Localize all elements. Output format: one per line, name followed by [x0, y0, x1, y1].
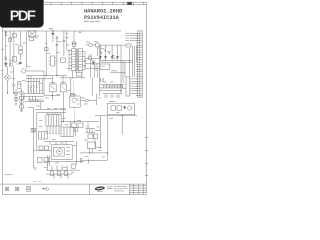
- wire: [33, 79, 35, 94]
- resistor R806: [20, 96, 24, 99]
- wire: [62, 76, 64, 84]
- wire: [3, 194, 147, 196]
- label: [102, 61, 106, 64]
- wire: [96, 47, 98, 56]
- capacitor C808: [63, 40, 66, 41]
- wire: [99, 45, 101, 61]
- label: [109, 101, 115, 102]
- label: [5, 174, 13, 175]
- label: [22, 79, 26, 82]
- resistor array RA801: [104, 85, 123, 88]
- resistor R861: [44, 158, 49, 163]
- node pins: [66, 148, 70, 155]
- node logo SAMSUNG: [94, 186, 105, 191]
- wire: [43, 71, 45, 96]
- transformer left pin bus: [68, 50, 70, 71]
- resistor bank hatch: [28, 85, 38, 92]
- wire: [100, 84, 125, 86]
- relay RL802: [70, 96, 80, 107]
- photocoupler PC802: [60, 84, 66, 92]
- label: [39, 119, 43, 122]
- junction: [74, 121, 75, 122]
- junction: [13, 92, 14, 93]
- label: [36, 105, 40, 108]
- connector CN852: [15, 187, 18, 191]
- wire: [105, 45, 107, 61]
- resistor R805: [15, 97, 18, 100]
- wire: [30, 96, 36, 100]
- wire: [66, 31, 68, 50]
- wire: [76, 141, 78, 165]
- wire: [46, 169, 80, 171]
- label: [100, 78, 101, 82]
- label: [17, 63, 21, 66]
- wire: [7, 81, 9, 86]
- transistor Q840: [128, 106, 132, 110]
- label: [23, 42, 27, 45]
- label: [111, 70, 117, 71]
- wire: [88, 57, 99, 59]
- transistor Q802: [20, 100, 24, 104]
- wire: [70, 78, 72, 96]
- label: [101, 47, 105, 50]
- label: [39, 125, 43, 128]
- junction: [107, 152, 108, 153]
- wire: [130, 37, 138, 39]
- wire: [44, 140, 74, 142]
- component block A: [39, 132, 48, 140]
- fuse F801: [5, 32, 7, 36]
- node logo sub: [97, 190, 103, 193]
- diode D822: [111, 56, 113, 58]
- label: [126, 37, 130, 40]
- diode D802: [52, 33, 55, 35]
- wire: [100, 44, 127, 46]
- wire: [33, 107, 35, 168]
- wire: [124, 62, 126, 77]
- wire: [24, 95, 44, 97]
- wire: [3, 4, 147, 6]
- wire: [69, 122, 71, 130]
- label: [73, 144, 77, 147]
- wire: [88, 62, 99, 64]
- wire: [23, 94, 25, 100]
- node arrow: [61, 86, 65, 90]
- capacitor C832: [117, 95, 119, 98]
- label: [109, 117, 113, 120]
- wire dashed: [73, 78, 75, 96]
- wire: [87, 160, 89, 163]
- resistor R872: [64, 171, 67, 176]
- resistor R852: [75, 128, 78, 132]
- wire: [21, 89, 23, 111]
- ic U803 box: [100, 64, 110, 70]
- varistor VZ801: [9, 39, 12, 42]
- wire: [92, 78, 94, 96]
- connector inner column: [138, 31, 140, 97]
- label: [101, 65, 105, 68]
- component block B: [61, 127, 73, 137]
- label: [85, 155, 89, 158]
- diode D811: [89, 57, 92, 60]
- junction: [89, 152, 90, 153]
- resistor R809: [76, 72, 82, 76]
- label: [44, 166, 48, 169]
- header group: [84, 7, 123, 22]
- junction: [52, 30, 53, 31]
- wire: [36, 113, 38, 151]
- jumper JP851: [43, 188, 49, 191]
- node dot: [43, 188, 45, 190]
- connector CN851: [5, 187, 8, 191]
- schematic body: [1, 28, 142, 191]
- label: [50, 82, 55, 83]
- wire: [26, 31, 28, 69]
- transistor box Q850: [52, 145, 73, 160]
- wire: [35, 109, 66, 111]
- label: [94, 40, 98, 43]
- connector CN801: [138, 31, 143, 97]
- node arrow: [51, 86, 55, 90]
- label: [65, 123, 69, 126]
- wire: [90, 60, 92, 78]
- label: [62, 117, 66, 120]
- junction: [100, 147, 101, 148]
- connector CN853: [27, 187, 31, 192]
- thermistor TH801: [9, 63, 12, 66]
- title block group: [90, 184, 147, 195]
- label: [10, 71, 14, 74]
- inductor L801: [89, 43, 93, 46]
- junction: [52, 95, 53, 96]
- label: [126, 34, 130, 37]
- wire: [40, 101, 42, 109]
- photocoupler circle: [21, 69, 25, 73]
- label: [49, 28, 53, 29]
- wire: [110, 72, 126, 74]
- junction: [105, 50, 106, 51]
- wire: [100, 87, 125, 89]
- resistor R870: [50, 171, 53, 176]
- wire: [30, 76, 32, 94]
- relay coil: [72, 98, 76, 102]
- line filter LF801: [28, 31, 35, 37]
- wire: [13, 31, 15, 62]
- wire table: [130, 184, 147, 195]
- junction: [7, 92, 8, 93]
- resistor R803: [61, 58, 65, 63]
- label marks: [33, 180, 41, 182]
- label: [58, 40, 62, 43]
- resistor R821: [78, 123, 83, 128]
- junction: [46, 75, 47, 76]
- connector pin stubs: [136, 33, 138, 95]
- transistor Q851: [57, 149, 63, 155]
- label: [38, 82, 42, 85]
- node pins: [83, 52, 89, 70]
- capacitor C812: [95, 69, 98, 70]
- label: [17, 91, 20, 94]
- label: [98, 97, 102, 100]
- wire dashed: [74, 107, 76, 121]
- transistor inner box: [53, 148, 64, 157]
- label: [47, 107, 51, 110]
- node ticks: [34, 168, 37, 169]
- winding hatch: [72, 51, 76, 67]
- wire: [106, 116, 108, 161]
- label: [34, 36, 38, 39]
- wire: [38, 79, 40, 94]
- label: [97, 126, 100, 129]
- capacitor C807: [56, 44, 59, 45]
- wire: [99, 45, 101, 96]
- wire: [130, 40, 138, 42]
- wire: [121, 116, 123, 135]
- capacitor C802 electrolytic: [18, 82, 21, 89]
- wire: [73, 31, 75, 42]
- wire: [7, 67, 9, 75]
- resistor pair R853: [86, 129, 101, 133]
- wire: [5, 31, 7, 63]
- capacitor C871: [72, 164, 75, 169]
- label: [86, 126, 90, 129]
- wire: [73, 71, 82, 78]
- diode block D850: [88, 134, 93, 139]
- junction: [88, 160, 89, 161]
- label: [25, 100, 29, 103]
- node terminal: [80, 161, 82, 163]
- wire: [73, 46, 75, 49]
- capacitor C810: [96, 43, 99, 47]
- wire: [50, 141, 66, 145]
- capacitor row: [47, 126, 59, 133]
- wire: [34, 150, 45, 152]
- label: [66, 44, 70, 47]
- capacitor CX802: [30, 38, 34, 41]
- diode D840: [123, 107, 125, 110]
- node pins: [130, 79, 138, 93]
- capacitor row: [48, 165, 68, 171]
- label: [57, 93, 61, 96]
- resistor R810 hatch: [30, 99, 38, 102]
- label: [63, 166, 67, 169]
- junction: [122, 115, 123, 116]
- diode D801: [5, 63, 8, 66]
- junction: [109, 52, 110, 53]
- node plate: [18, 83, 21, 85]
- wire: [88, 67, 99, 69]
- photocoupler PC801: [50, 84, 56, 92]
- ic IC850 box: [46, 115, 61, 126]
- wire: [15, 89, 17, 104]
- junction: [84, 60, 86, 62]
- wire: [24, 93, 44, 95]
- label: [49, 27, 53, 30]
- wire: [130, 32, 138, 34]
- sheet frame group: [0, 2, 148, 195]
- inductor LF802: [19, 46, 22, 50]
- capacitor C801: [12, 66, 15, 93]
- connector pins: [138, 33, 143, 95]
- line filter cross: [28, 31, 35, 37]
- label: [47, 52, 51, 55]
- junction: [56, 75, 57, 76]
- wire: [28, 99, 44, 101]
- wire: [75, 127, 77, 136]
- label: [98, 149, 102, 152]
- wire: [26, 70, 44, 72]
- mosfet Q801: [72, 42, 75, 46]
- wire: [51, 76, 53, 84]
- label: [84, 103, 88, 106]
- label: [55, 162, 59, 165]
- wire: [89, 100, 97, 102]
- diode D823: [117, 56, 119, 58]
- wire: [60, 108, 66, 110]
- wire: [80, 152, 107, 154]
- label: [81, 97, 85, 100]
- svg-text:PDF: PDF: [10, 8, 36, 25]
- resistor R840: [111, 106, 115, 110]
- wire: [100, 116, 102, 148]
- diode D820: [99, 56, 101, 58]
- capacitor ticks: [46, 133, 60, 135]
- wire: [122, 61, 124, 83]
- node terminal: [80, 158, 82, 160]
- wire: [111, 45, 113, 61]
- resistor R851 hatch: [31, 128, 36, 132]
- resistor R871: [57, 171, 60, 176]
- label: [113, 57, 117, 60]
- ground: [20, 111, 23, 112]
- label: [84, 139, 88, 142]
- capacitor C831: [111, 95, 113, 98]
- label: [126, 32, 130, 35]
- resistor R820: [72, 123, 76, 128]
- capacitor CX801: [5, 57, 7, 60]
- label: [35, 35, 40, 38]
- label: [65, 36, 69, 39]
- wire: [44, 95, 60, 97]
- wire: [97, 70, 99, 78]
- node cluster: [70, 94, 75, 96]
- node blob: [19, 62, 22, 64]
- node subtitle: [84, 21, 89, 22]
- pin header block: [126, 77, 130, 96]
- junction: [84, 65, 86, 67]
- label: [27, 65, 31, 68]
- node titleblock text rows: [107, 186, 128, 191]
- label: [77, 119, 81, 122]
- wire right border ticks: [145, 138, 148, 176]
- wire: [100, 90, 121, 92]
- junction: [101, 52, 102, 53]
- wire: [103, 93, 122, 95]
- wire: [89, 184, 91, 195]
- wire: [28, 100, 44, 102]
- label: [91, 59, 95, 62]
- wire: [9, 31, 11, 66]
- transformer secondary winding: [78, 49, 82, 71]
- wire: [20, 31, 22, 46]
- wire: [100, 61, 133, 63]
- resistor R860: [38, 158, 43, 163]
- wire: [44, 161, 84, 163]
- label: [71, 171, 75, 174]
- diode D860: [39, 146, 43, 150]
- wire: [97, 147, 101, 149]
- wire: [130, 46, 137, 77]
- resistor array hatch: [105, 85, 123, 88]
- transformer core: [77, 48, 78, 71]
- wire: [86, 44, 96, 46]
- ic IC801: [50, 56, 54, 66]
- node dot: [59, 151, 60, 152]
- node tick: [45, 43, 47, 45]
- winding hatch: [78, 51, 82, 67]
- wire: [54, 174, 68, 179]
- wire: [0, 183, 146, 185]
- label: [39, 89, 43, 92]
- node tick: [66, 32, 68, 34]
- node subtitle word2: [90, 21, 95, 22]
- wire: [62, 92, 64, 122]
- label: [15, 43, 19, 46]
- node logo text: [97, 187, 103, 189]
- label: [68, 89, 72, 92]
- wire: [60, 77, 85, 79]
- wire: [94, 139, 96, 146]
- label: [45, 97, 49, 100]
- wire: [51, 92, 53, 100]
- wire: [2, 2, 4, 194]
- wire: [120, 83, 122, 94]
- relay RL801: [13, 33, 17, 37]
- wire: [46, 173, 72, 175]
- wire: [96, 94, 98, 106]
- ground: [15, 104, 18, 105]
- label: [103, 81, 107, 84]
- wire: [120, 45, 122, 83]
- label: [103, 78, 104, 82]
- label: [12, 77, 16, 80]
- capacitor C806: [56, 37, 59, 38]
- wire: [95, 115, 137, 117]
- node subtitle word3: [95, 21, 99, 22]
- junction: [120, 90, 121, 91]
- wire: [36, 79, 38, 94]
- resistor R807: [20, 105, 24, 108]
- resistor R802: [45, 48, 48, 51]
- label T801: [72, 43, 77, 44]
- wire: [45, 31, 47, 76]
- resistor R841: [117, 106, 121, 110]
- label: [123, 87, 126, 90]
- label: [1, 48, 4, 51]
- node contact: [77, 98, 80, 104]
- wire: [27, 76, 29, 94]
- wire: [87, 122, 89, 127]
- label: [110, 81, 114, 84]
- PDF badge: [0, 0, 44, 28]
- label: [56, 51, 60, 54]
- wire: [28, 106, 34, 108]
- wire: [20, 54, 22, 60]
- wire: [82, 159, 107, 161]
- wire: [145, 2, 147, 194]
- wire: [37, 112, 66, 114]
- transformer primary winding: [72, 49, 76, 71]
